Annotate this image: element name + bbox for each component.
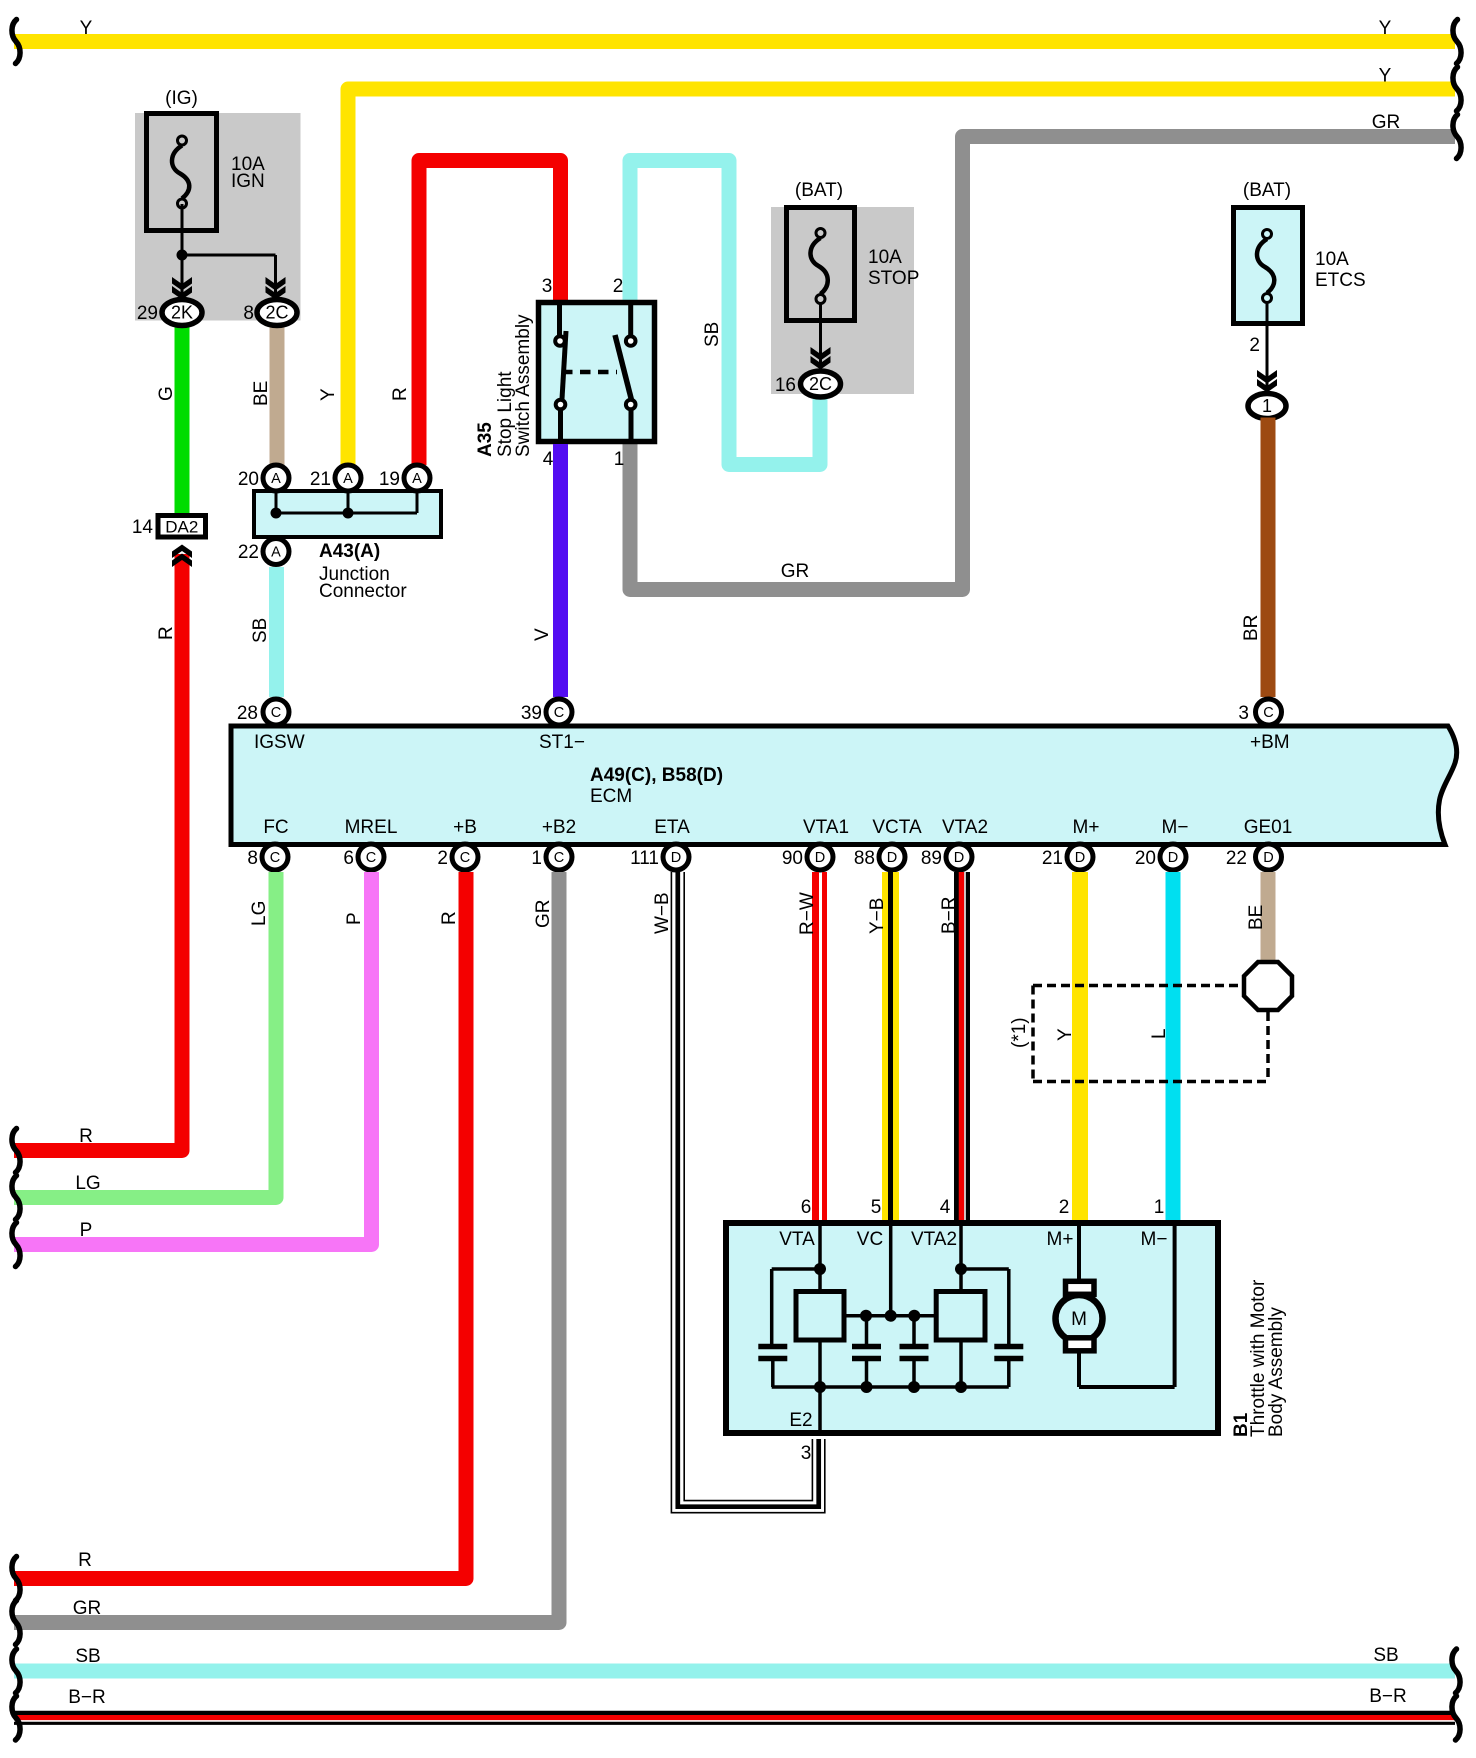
throttle position sensor wiring (772, 1226, 1009, 1433)
svg-text:(*1): (*1) (1009, 1017, 1030, 1048)
svg-text:GR: GR (533, 900, 554, 929)
svg-text:2K: 2K (171, 303, 193, 323)
capacitor C2 (852, 1347, 881, 1359)
svg-text:3: 3 (801, 1443, 812, 1464)
svg-text:A49(C), B58(D): A49(C), B58(D) (590, 765, 723, 786)
svg-text:A: A (271, 471, 281, 487)
svg-text:R: R (156, 626, 177, 640)
svg-text:M−: M− (1141, 1229, 1168, 1250)
arrow into connector 2C (266, 277, 286, 300)
svg-text:22: 22 (238, 542, 259, 563)
svg-text:Y: Y (1379, 66, 1392, 87)
svg-text:5: 5 (871, 1197, 882, 1218)
fuse 10A STOP box (787, 208, 855, 321)
svg-text:16: 16 (775, 375, 796, 396)
arrow into connector 2K (172, 277, 192, 300)
svg-text:R: R (390, 387, 411, 401)
break symbol left end of LG wire (12, 1176, 20, 1220)
ECM pin 89 D VTA2 (946, 844, 972, 870)
wire Y second bus to junction connector pin 21 (348, 89, 1455, 465)
svg-text:Switch Assembly: Switch Assembly (513, 314, 534, 457)
wire R from DA2 to left edge (14, 554, 182, 1151)
wire R from ECM pin +B to left edge (14, 872, 466, 1579)
svg-text:Connector: Connector (319, 581, 407, 602)
svg-text:SB: SB (250, 618, 271, 643)
svg-text:C: C (554, 850, 564, 866)
svg-text:1: 1 (1262, 396, 1272, 416)
svg-text:W−B: W−B (652, 892, 673, 934)
svg-text:6: 6 (801, 1197, 812, 1218)
svg-text:8: 8 (243, 303, 254, 324)
svg-text:21: 21 (310, 469, 331, 490)
break symbol left end of P wire (12, 1223, 20, 1267)
capacitor C3 (900, 1347, 929, 1359)
break symbol right end of SB bus (1452, 1649, 1460, 1693)
svg-text:R: R (439, 911, 460, 925)
svg-text:D: D (1168, 850, 1178, 866)
junction dot VC center (885, 1310, 897, 1322)
svg-text:B−R: B−R (1369, 1686, 1407, 1707)
connector DA2 pin 14 (158, 516, 206, 538)
svg-text:R−W: R−W (797, 892, 818, 935)
switch A35 internal contacts (560, 304, 632, 441)
wire R from junction connector pin 19 to stop light switch pin 3 (419, 161, 561, 466)
arrow up into DA2 (172, 545, 192, 568)
ECM pin 2 C +B (452, 844, 478, 870)
wire L from ECM pin M- to throttle body pin 1 (1166, 872, 1181, 1220)
svg-text:GR: GR (1372, 112, 1401, 133)
wire P from ECM pin MREL to left edge (14, 872, 372, 1245)
svg-text:Body Assembly: Body Assembly (1266, 1307, 1287, 1437)
svg-text:8: 8 (247, 848, 258, 869)
wire BR from connector 1 to ECM pin 3 +BM (1261, 418, 1276, 698)
wire Y-B from ECM pin VCTA to throttle body pin 5 (882, 872, 899, 1220)
ECM pin 88 D VCTA (879, 844, 905, 870)
svg-text:10A: 10A (1315, 249, 1349, 270)
svg-text:MREL: MREL (345, 817, 398, 838)
svg-text:P: P (80, 1220, 93, 1241)
svg-text:2: 2 (437, 848, 448, 869)
break symbol right end of GR wire (1453, 115, 1461, 159)
svg-text:Y: Y (1055, 1028, 1076, 1041)
wire B-R from ECM pin VTA2 to throttle body pin 4 (954, 872, 970, 1220)
svg-text:VCTA: VCTA (872, 817, 922, 838)
svg-text:D: D (671, 850, 681, 866)
wire SB from stop light switch pin 2 to STOP fuse connector 16 2C (630, 161, 820, 465)
wire Y from ECM pin M+ to throttle body pin 2 (1072, 872, 1088, 1220)
svg-text:Y: Y (1379, 18, 1392, 39)
svg-text:20: 20 (238, 469, 259, 490)
fuse 10A IGN element symbol (178, 136, 187, 145)
junction dot VTA upper (814, 1263, 826, 1275)
svg-text:M: M (1071, 1309, 1087, 1330)
svg-text:111: 111 (630, 848, 659, 869)
connector 2C pin 16 (801, 371, 841, 397)
ECM pin 21 D M+ (1067, 844, 1093, 870)
break symbol right end of Y second bus (1453, 67, 1461, 111)
capacitor C1 (758, 1347, 787, 1359)
fuse 10A STOP gray background (771, 207, 914, 394)
svg-text:10A: 10A (868, 247, 902, 268)
junction dot bus VTA (814, 1381, 826, 1393)
wire G from connector 2K to DA2 (175, 323, 190, 513)
svg-text:4: 4 (940, 1197, 951, 1218)
fuse 10A IGN gray background (135, 113, 301, 321)
svg-text:L: L (1149, 1028, 1170, 1039)
junction dot bus C3 (908, 1381, 920, 1393)
svg-text:(BAT): (BAT) (795, 180, 843, 201)
svg-text:2: 2 (1249, 335, 1260, 356)
ECM pin 1 C +B2 (546, 844, 572, 870)
wire SB bottom bus (14, 1664, 1455, 1679)
svg-text:39: 39 (521, 703, 542, 724)
svg-text:1: 1 (1154, 1197, 1165, 1218)
svg-text:GR: GR (73, 1598, 102, 1619)
ECM pin 8 C FC (262, 844, 288, 870)
svg-text:A: A (271, 545, 281, 561)
svg-text:22: 22 (1226, 848, 1247, 869)
svg-text:D: D (1075, 850, 1085, 866)
svg-text:LG: LG (75, 1173, 100, 1194)
throttle with motor body assembly B1 box (726, 1223, 1218, 1433)
svg-text:C: C (270, 850, 280, 866)
svg-text:STOP: STOP (868, 268, 919, 289)
fuse 10A ETCS element symbol (1263, 230, 1272, 239)
wire BE from ECM pin GE01 to shield octagon (1261, 872, 1276, 962)
throttle motor wiring (1079, 1226, 1175, 1387)
fuse 10A STOP element symbol (816, 229, 825, 238)
svg-text:BE: BE (251, 381, 272, 406)
wire R-W from ECM pin VTA1 to throttle body pin 6 (812, 872, 819, 1220)
svg-text:(BAT): (BAT) (1243, 180, 1291, 201)
wire B-R bottom bus (14, 1711, 1455, 1715)
motor M (1056, 1295, 1103, 1342)
svg-text:P: P (344, 912, 365, 925)
junction dot VTA2 upper (955, 1263, 967, 1275)
svg-text:2: 2 (613, 276, 624, 297)
svg-text:1: 1 (531, 848, 542, 869)
svg-text:SB: SB (702, 322, 723, 347)
connector A43 pin 19 (404, 465, 430, 491)
svg-text:Y: Y (318, 388, 339, 401)
svg-text:M+: M+ (1073, 817, 1100, 838)
break symbol right end of Y top bus (1453, 20, 1461, 64)
wire from ETCS fuse pin 2 to connector 1 (1266, 303, 1269, 392)
fuse 10A ETCS box (1234, 208, 1303, 324)
ECM pin 20 D M- (1160, 844, 1186, 870)
svg-text:89: 89 (921, 848, 942, 869)
svg-text:VTA: VTA (779, 1229, 815, 1250)
svg-text:19: 19 (379, 469, 400, 490)
svg-text:C: C (366, 850, 376, 866)
svg-text:GR: GR (781, 561, 810, 582)
wire from STOP fuse to connector 2C (819, 304, 822, 369)
svg-text:M−: M− (1162, 817, 1189, 838)
junction dot A43 pin 20 (271, 508, 282, 519)
sensor element VTA box (796, 1292, 844, 1341)
svg-text:A: A (343, 471, 353, 487)
svg-text:DA2: DA2 (165, 518, 198, 537)
connector A43 pin 22 (263, 539, 289, 565)
svg-text:21: 21 (1042, 848, 1063, 869)
break symbol left end of Y top bus (12, 20, 20, 64)
junction dot VC left (860, 1310, 872, 1322)
junction dot bus VTA2 (955, 1381, 967, 1393)
shield ground octagon (1244, 962, 1292, 1010)
svg-text:ECM: ECM (590, 786, 632, 807)
svg-text:VTA2: VTA2 (942, 817, 988, 838)
wire from fuse IGN to junction node (182, 204, 276, 297)
ECM pin 90 D VTA1 (807, 844, 833, 870)
svg-text:+B2: +B2 (542, 817, 576, 838)
break symbol left end of R wire (12, 1129, 20, 1173)
svg-text:2C: 2C (809, 374, 832, 394)
svg-text:VTA2: VTA2 (911, 1229, 957, 1250)
svg-text:90: 90 (782, 848, 803, 869)
svg-text:IGSW: IGSW (254, 732, 305, 753)
break symbol left end of B-R bus (12, 1696, 20, 1740)
svg-text:R: R (78, 1550, 92, 1571)
svg-text:Y−B: Y−B (867, 898, 888, 934)
svg-text:E2: E2 (789, 1410, 812, 1431)
ECM A49(C) B58(D) box (231, 726, 1457, 845)
stop light switch assembly A35 box (539, 303, 655, 442)
svg-text:D: D (887, 850, 897, 866)
arrow into connector 1 (1257, 370, 1277, 393)
ECM pin 22 D GE01 (1256, 844, 1282, 870)
svg-text:A: A (412, 471, 422, 487)
wire V from switch pin 4 to ECM pin 39 ST1- (553, 444, 568, 697)
svg-text:VTA1: VTA1 (803, 817, 849, 838)
break symbol left end of SB bus (12, 1649, 20, 1693)
junction connector A43(A) box (254, 491, 441, 537)
break symbol left end of +B2 GR wire (12, 1601, 20, 1645)
break symbol right end of B-R bus (1452, 1696, 1460, 1740)
svg-text:BE: BE (1246, 905, 1267, 930)
svg-text:SB: SB (75, 1646, 100, 1667)
svg-text:A43(A): A43(A) (319, 541, 380, 562)
wire GR from stop light switch pin 1 to right edge (630, 137, 1455, 590)
svg-text:ETA: ETA (654, 817, 690, 838)
svg-text:2C: 2C (265, 303, 288, 323)
ECM pin 28 C IGSW (263, 699, 289, 725)
svg-text:D: D (954, 850, 964, 866)
svg-text:IGN: IGN (231, 171, 265, 192)
wire LG from ECM pin FC to left edge (14, 872, 276, 1198)
svg-text:Y: Y (80, 18, 93, 39)
junction dot below fuse IGN (177, 250, 188, 261)
svg-text:D: D (815, 850, 825, 866)
fuse 10A IGN box (147, 114, 217, 231)
junction dot bus C2 (861, 1381, 873, 1393)
svg-text:6: 6 (343, 848, 354, 869)
svg-text:88: 88 (854, 848, 875, 869)
svg-text:ETCS: ETCS (1315, 270, 1366, 291)
svg-text:14: 14 (132, 517, 154, 538)
connector 2K pin 29 (162, 300, 202, 326)
svg-text:R: R (79, 1126, 93, 1147)
svg-text:C: C (1263, 705, 1273, 721)
svg-text:28: 28 (237, 703, 258, 724)
svg-text:GE01: GE01 (1244, 817, 1293, 838)
svg-text:+BM: +BM (1250, 732, 1290, 753)
svg-text:C: C (554, 705, 564, 721)
svg-text:SB: SB (1373, 1645, 1398, 1666)
svg-text:20: 20 (1135, 848, 1156, 869)
shield dashed box (*1) (1033, 986, 1268, 1082)
svg-text:M+: M+ (1047, 1229, 1074, 1250)
svg-text:29: 29 (137, 303, 158, 324)
connector 1 below ETCS fuse (1248, 394, 1286, 419)
svg-text:FC: FC (263, 817, 288, 838)
svg-text:C: C (271, 705, 281, 721)
ECM pin 39 C ST1- (546, 699, 572, 725)
connector 2C pin 8 (257, 300, 297, 326)
svg-text:+B: +B (453, 817, 477, 838)
junction dot VC right (908, 1310, 920, 1322)
svg-text:ST1−: ST1− (539, 732, 585, 753)
svg-text:B−R: B−R (939, 897, 960, 935)
svg-text:3: 3 (542, 276, 553, 297)
ECM pin 6 C MREL (358, 844, 384, 870)
junction dot A43 pin 21 (343, 508, 354, 519)
svg-text:3: 3 (1238, 703, 1249, 724)
ECM pin 3 C +BM (1256, 699, 1282, 725)
svg-text:C: C (460, 850, 470, 866)
junction connector A43 internal bus (276, 491, 417, 513)
svg-text:(IG): (IG) (165, 88, 198, 109)
wire W-B from ECM pin ETA to throttle body pin 3 (678, 872, 819, 1507)
arrow into connector 2C of STOP fuse (811, 347, 831, 370)
break symbol left end of +B R wire (12, 1557, 20, 1601)
wire Y top bus (14, 34, 1455, 49)
svg-text:V: V (532, 628, 553, 641)
connector A43 pin 20 (263, 465, 289, 491)
svg-text:LG: LG (249, 901, 270, 926)
connector A43 pin 21 (335, 465, 361, 491)
svg-text:4: 4 (543, 449, 554, 470)
wire GR from ECM pin +B2 to left edge (14, 872, 559, 1623)
svg-text:2: 2 (1059, 1197, 1070, 1218)
svg-text:G: G (156, 386, 177, 401)
svg-text:D: D (1263, 850, 1273, 866)
svg-text:VC: VC (857, 1229, 883, 1250)
svg-text:1: 1 (614, 449, 625, 470)
sensor element VTA2 box (936, 1292, 985, 1341)
wire SB from A43 pin 22 to ECM pin 28 IGSW (269, 567, 284, 697)
svg-text:A35: A35 (475, 422, 496, 457)
capacitor C4 (994, 1347, 1023, 1359)
svg-text:B−R: B−R (68, 1687, 106, 1708)
wire BE from connector 2C to junction connector pin 20 (270, 323, 285, 466)
ECM pin 111 D ETA (663, 844, 689, 870)
svg-text:BR: BR (1241, 615, 1262, 641)
